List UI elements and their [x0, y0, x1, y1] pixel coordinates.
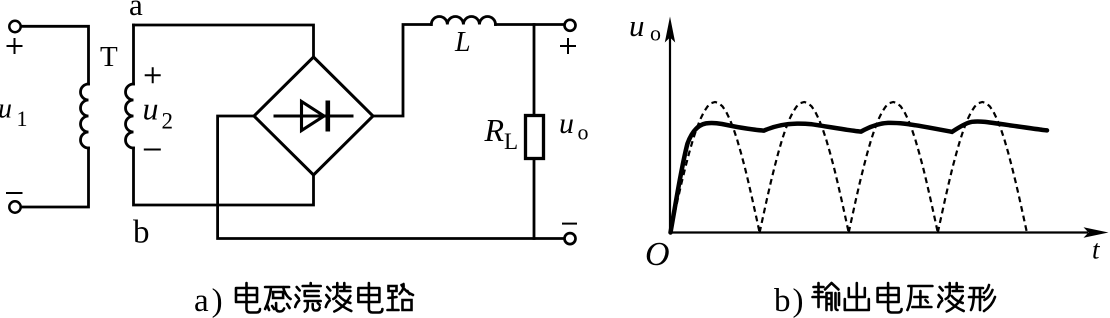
svg-text:o: o	[650, 21, 661, 46]
svg-text:u: u	[629, 8, 645, 43]
svg-text:u: u	[0, 94, 12, 125]
svg-text:2: 2	[162, 109, 174, 134]
svg-text:b): b)	[774, 283, 806, 318]
svg-text:L: L	[454, 27, 471, 58]
svg-text:o: o	[578, 120, 589, 145]
svg-text:O: O	[645, 236, 670, 273]
svg-text:b: b	[133, 215, 150, 251]
svg-text:a): a)	[194, 283, 226, 318]
svg-text:u: u	[559, 107, 574, 140]
svg-text:R: R	[484, 112, 505, 148]
svg-text:a: a	[129, 0, 143, 22]
svg-text:T: T	[100, 41, 118, 73]
svg-text:L: L	[504, 129, 518, 154]
svg-text:1: 1	[17, 106, 28, 131]
svg-text:u: u	[143, 91, 159, 127]
